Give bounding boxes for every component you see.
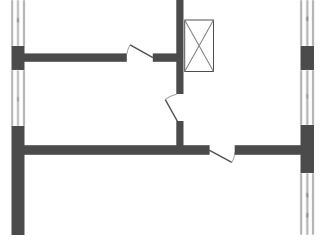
window W4 (right wall, middle)	[301, 70, 314, 125]
door D2 (in middle wall)	[165, 94, 177, 121]
wall top horizontal, left segment	[24, 53, 127, 61]
window W3 (right wall, top)	[301, 0, 314, 46]
window W5 (right wall, bottom)	[301, 173, 314, 235]
window W2 (left wall, middle)	[12, 70, 25, 126]
window W1 (left wall, top)	[12, 0, 25, 46]
shaft (crossed box)	[185, 20, 214, 72]
wall bottom horizontal, left segment	[24, 145, 210, 155]
wall middle vertical, upper segment	[176, 0, 183, 94]
wall pier right (between windows W3/W4)	[301, 46, 315, 70]
wall top horizontal, right segment	[153, 53, 177, 61]
wall pier right lower (between W4/W5)	[301, 125, 315, 173]
door D3 (in bottom wall)	[210, 150, 235, 162]
door D1 (in top wall)	[127, 45, 153, 58]
wall pier left (between windows W1/W2)	[12, 46, 25, 70]
wall bottom horizontal, right segment	[235, 145, 302, 155]
wall left lower (solid exterior)	[12, 126, 25, 235]
wall middle vertical, lower segment	[176, 121, 183, 146]
